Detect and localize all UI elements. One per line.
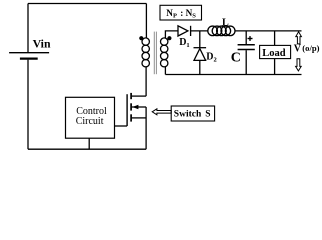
svg-text:V: V — [294, 44, 302, 55]
wire battery bottom lead — [27, 60, 29, 150]
wire bottom rail secondary — [165, 74, 301, 76]
svg-text:C: C — [231, 51, 241, 66]
inductor L — [208, 26, 235, 36]
diode D2 — [194, 48, 207, 61]
wire source vertical — [145, 107, 147, 149]
transformer T1 secondary winding — [161, 38, 168, 67]
transformer T1 primary winding — [142, 38, 149, 67]
wire D1 to L — [191, 30, 208, 32]
capacitor C — [238, 45, 255, 50]
svg-text:Load: Load — [262, 48, 286, 59]
svg-text:(o/p): (o/p) — [302, 43, 319, 53]
wire primary top feed — [145, 4, 147, 39]
wire D2 top feed — [199, 31, 201, 48]
battery Vin — [9, 53, 49, 59]
output arrow down — [296, 59, 302, 71]
wire control bottom feed — [88, 138, 90, 149]
wire top rail primary — [28, 3, 146, 5]
wire load top feed — [274, 31, 276, 46]
box Np:Ns — [160, 5, 202, 20]
wire D2 bottom feed — [199, 60, 201, 74]
wire drain vertical — [145, 66, 147, 96]
wire bottom rail primary — [28, 148, 146, 150]
wire L to output node — [235, 30, 302, 32]
wire secondary top feed — [165, 31, 178, 39]
polarity dot secondary — [167, 36, 171, 40]
polarity dot primary — [139, 36, 143, 40]
svg-text:L: L — [222, 17, 229, 28]
label Control Circuit — [76, 106, 107, 127]
switch callout arrow — [152, 109, 171, 115]
transformer core — [154, 32, 156, 75]
label V (o/p) — [294, 43, 320, 54]
svg-text:Circuit: Circuit — [76, 116, 104, 127]
svg-text:NP : NS: NP : NS — [166, 8, 196, 20]
svg-text:SwitchS: SwitchS — [174, 110, 211, 120]
control circuit box — [66, 97, 115, 138]
wire secondary bottom feed — [164, 66, 166, 74]
diode D1 — [178, 26, 191, 36]
wire battery top lead — [27, 4, 29, 53]
svg-text:D2: D2 — [206, 52, 216, 64]
wire control to gate — [115, 125, 128, 127]
wire capacitor bottom feed — [245, 50, 247, 74]
load box — [260, 45, 291, 58]
wire capacitor top feed — [245, 31, 247, 44]
switch S box — [171, 106, 214, 121]
svg-text:Vin: Vin — [33, 37, 51, 51]
transistor Q1 MOSFET — [127, 93, 146, 126]
plus polarity mark — [248, 36, 253, 41]
wire load bottom feed — [274, 59, 276, 75]
svg-text:D1: D1 — [179, 37, 189, 49]
output arrow up — [296, 32, 302, 44]
